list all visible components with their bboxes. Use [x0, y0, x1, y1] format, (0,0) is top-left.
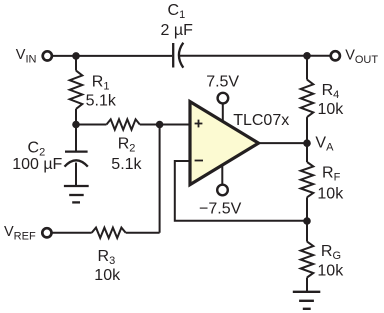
svg-text:2 µF: 2 µF	[161, 22, 194, 39]
capacitor C1	[173, 43, 183, 68]
wire VREF to R3	[52, 232, 91, 234]
svg-text:10k: 10k	[317, 185, 344, 202]
svg-text:7.5V: 7.5V	[206, 74, 239, 91]
op-amp U1 TLC07x	[190, 102, 259, 185]
resistor RF	[301, 143, 314, 221]
wire op-amp top to +7.5V pin	[222, 104, 224, 122]
node D: R2/R3/+input junction	[156, 121, 164, 129]
op-amp - input symbol	[195, 160, 203, 162]
node VA	[303, 139, 311, 147]
wire op-amp bottom to -7.5V pin	[221, 165, 223, 185]
resistor R1	[70, 56, 83, 125]
svg-text:5.1k: 5.1k	[111, 156, 142, 173]
resistor R4	[301, 56, 314, 143]
svg-text:100 µF: 100 µF	[12, 156, 62, 173]
ground (RG)	[293, 292, 321, 309]
wire node D to op-amp + input	[160, 124, 190, 126]
power pin -7.5V	[217, 185, 228, 196]
capacitor C2	[65, 125, 88, 187]
node B: C1/R4/VOUT junction	[303, 52, 311, 60]
wire VIN to C1	[53, 55, 172, 57]
node C: R1/C2/R2 junction	[72, 121, 80, 129]
resistor RG	[301, 221, 314, 292]
ground (C2)	[64, 186, 89, 202]
terminal VIN	[43, 51, 52, 60]
resistor R3	[92, 228, 160, 238]
svg-text:10k: 10k	[318, 101, 345, 118]
wire op-amp output to node VA	[259, 142, 308, 144]
svg-text:−7.5V: −7.5V	[199, 201, 242, 218]
terminal VOUT	[331, 51, 340, 60]
svg-text:TLC07x: TLC07x	[233, 112, 289, 129]
svg-text:10k: 10k	[317, 263, 344, 280]
node A: VIN/R1/C1 junction	[72, 52, 80, 60]
node E: RF/RG/feedback junction	[303, 217, 311, 225]
resistor R2	[76, 119, 160, 129]
wire feedback: - input to node E	[175, 161, 307, 221]
wire C1 to VOUT	[180, 55, 330, 57]
wire node D down to R3	[159, 125, 161, 233]
terminal VREF	[42, 228, 51, 237]
power pin +7.5V	[218, 93, 229, 104]
svg-text:5.1k: 5.1k	[86, 93, 117, 110]
op-amp + input symbol	[195, 120, 203, 128]
svg-text:10k: 10k	[94, 267, 121, 284]
